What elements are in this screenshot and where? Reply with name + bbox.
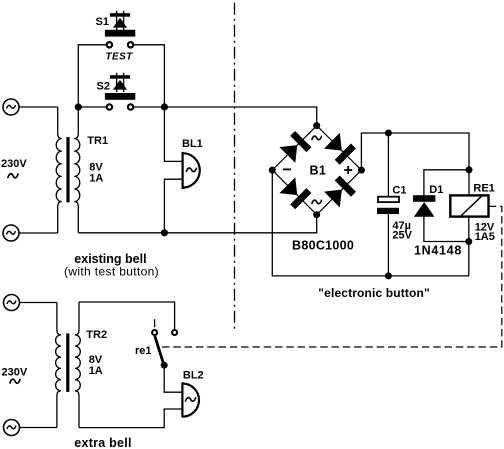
wire S2 left — [78, 106, 107, 108]
AC source terminal top (upper circuit) — [3, 99, 19, 115]
relay coil RE1 — [450, 195, 488, 216]
wire bottom rail to bridge — [78, 215, 316, 233]
transformer TR1 primary coil — [56, 107, 62, 233]
svg-text:S1: S1 — [96, 16, 109, 28]
bridge rectifier B1 outline — [272, 126, 361, 215]
capacitor C1 — [377, 197, 399, 214]
svg-text:B80C1000: B80C1000 — [292, 239, 354, 253]
relay contact arm re1 — [154, 319, 156, 327]
contact re1 left — [152, 330, 157, 335]
bell BL1 — [183, 152, 200, 189]
node junction D1 top — [466, 166, 473, 173]
node junction D1 bottom — [465, 238, 472, 245]
svg-text:D1: D1 — [429, 184, 443, 196]
AC tilde under 230V (lower) — [10, 379, 20, 384]
svg-text:1A: 1A — [89, 173, 103, 185]
svg-text:230V: 230V — [1, 158, 27, 170]
svg-text:1N4148: 1N4148 — [414, 243, 462, 257]
wire S1 left branch — [78, 45, 107, 107]
transformer TR1 core — [66, 137, 69, 202]
svg-text:C1: C1 — [392, 184, 406, 196]
diode bridge bottom-right — [324, 176, 356, 208]
svg-text:1A: 1A — [89, 365, 103, 377]
svg-text:"electronic button": "electronic button" — [318, 286, 430, 300]
bridge AC tilde top — [312, 136, 322, 140]
wire BL1 top lead — [164, 107, 182, 161]
node bridge right vertex — [358, 167, 365, 174]
node junction secondary-top / S1-S2 left — [75, 103, 82, 110]
svg-text:BL1: BL1 — [182, 138, 203, 150]
divider dash-dot line — [234, 3, 236, 329]
wire AC bottom to TR1 primary — [19, 232, 58, 234]
svg-text:BL2: BL2 — [183, 369, 204, 381]
bridge minus sign — [283, 168, 291, 170]
wire AC bottom to TR2 primary — [20, 427, 57, 429]
node bridge top vertex — [313, 122, 320, 129]
wire bridge minus to lower rail — [272, 170, 469, 276]
AC source terminal top (lower circuit) — [4, 295, 20, 311]
svg-text:(with test button): (with test button) — [64, 265, 159, 279]
diode D1 — [413, 195, 435, 217]
svg-text:TR2: TR2 — [86, 329, 107, 341]
node junction BL1 bottom on bottom rail — [161, 229, 168, 236]
transformer TR2 primary coil — [56, 303, 61, 428]
contact re1 right — [172, 330, 177, 335]
wire BL2 bottom lead — [79, 409, 182, 428]
wire C1 top lead — [387, 133, 389, 196]
transformer TR1 secondary coil — [74, 107, 80, 233]
diode bridge bottom-left — [279, 177, 311, 209]
switch S1 pushbutton — [105, 11, 135, 37]
AC source terminal bottom (lower circuit) — [4, 420, 20, 436]
wire TR2 secondary top to re1 contact — [79, 302, 175, 330]
bell BL2 — [182, 382, 199, 417]
dashed mechanical link RE1 to re1 — [162, 206, 502, 347]
svg-text:extra bell: extra bell — [74, 436, 131, 449]
contact S1 right — [128, 42, 133, 47]
AC tilde under 230V (upper) — [8, 173, 18, 178]
node bridge bottom vertex — [313, 211, 320, 218]
transformer TR2 secondary coil — [75, 302, 80, 428]
svg-text:25V: 25V — [392, 230, 412, 242]
svg-text:re1: re1 — [135, 345, 152, 357]
AC source terminal bottom (upper circuit) — [3, 225, 19, 241]
svg-text:B1: B1 — [310, 163, 327, 177]
svg-text:1A5: 1A5 — [475, 231, 495, 243]
svg-text:S2: S2 — [97, 81, 110, 93]
bridge plus sign — [344, 166, 352, 174]
node junction S-buttons right / BL1 top — [161, 103, 168, 110]
wire S1 right branch — [133, 45, 164, 107]
svg-text:230V: 230V — [2, 366, 28, 378]
wire RE1 bottom lead — [468, 217, 470, 276]
wire AC top to TR1 primary — [19, 106, 58, 108]
bridge AC tilde bottom — [312, 200, 322, 204]
wire D1 top lead — [424, 170, 469, 195]
diode bridge top-right — [324, 133, 356, 165]
wire main top rail to bridge — [133, 107, 317, 126]
svg-text:TEST: TEST — [106, 51, 134, 62]
contact S2 right — [128, 104, 133, 109]
svg-text:RE1: RE1 — [473, 183, 494, 195]
wire BL2 top lead — [164, 365, 182, 392]
diode bridge top-left — [279, 131, 311, 163]
wire D1 bottom lead — [424, 217, 469, 242]
wire C1 bottom lead — [387, 214, 389, 276]
contact S1 left — [107, 42, 112, 47]
wire AC top to TR2 primary — [20, 302, 57, 304]
node re1 pivot — [161, 362, 168, 369]
wire bridge plus to top rail — [361, 133, 469, 195]
node bridge left vertex — [269, 167, 276, 174]
contact S2 left — [107, 104, 112, 109]
switch S2 pushbutton — [105, 73, 135, 100]
wire BL1 bottom lead — [164, 179, 182, 233]
transformer TR2 core — [66, 333, 69, 392]
node junction C1 top on rail — [385, 130, 392, 137]
svg-text:TR1: TR1 — [87, 135, 108, 147]
node junction C1 bottom on lower rail — [385, 272, 392, 279]
